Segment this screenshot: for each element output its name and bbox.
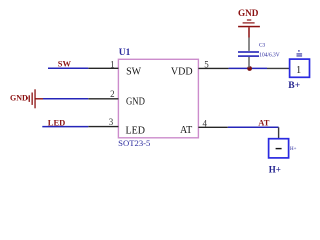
pin 1	[88, 67, 118, 69]
connector H+	[269, 139, 289, 158]
pin 4	[198, 126, 227, 128]
connector B+ tiny designator	[297, 50, 303, 56]
capacitor C3	[248, 38, 250, 51]
svg-text:1: 1	[296, 65, 301, 76]
pin 3	[88, 126, 118, 128]
power port GND (top)	[238, 8, 260, 27]
svg-text:104/6.3V: 104/6.3V	[259, 51, 280, 58]
svg-text:2: 2	[110, 89, 115, 99]
svg-text:B+: B+	[288, 80, 300, 91]
svg-text:GND: GND	[238, 8, 259, 18]
svg-text:1: 1	[110, 59, 115, 69]
svg-text:GND: GND	[10, 93, 28, 102]
pin of connector H+ (vertical)	[278, 127, 280, 138]
svg-text:SOT23-5: SOT23-5	[118, 138, 150, 148]
wire GND net	[43, 98, 88, 100]
power port GND stem	[248, 27, 250, 37]
wire SW	[48, 67, 88, 69]
svg-text:SW: SW	[126, 67, 142, 78]
svg-text:U1: U1	[119, 48, 131, 58]
pin 5	[198, 67, 228, 69]
wire LED	[42, 126, 88, 128]
node junction	[247, 66, 252, 71]
wire stub GND left	[35, 98, 43, 100]
pin 2	[88, 98, 118, 100]
wire VDD net (pin5 to junction to B+)	[229, 67, 267, 69]
op-amp U1 (IC body SOT23-5)	[118, 59, 198, 138]
svg-text:VDD: VDD	[171, 67, 193, 78]
svg-text:AT: AT	[180, 125, 192, 136]
power port GND (left)	[10, 89, 36, 108]
svg-text:3: 3	[109, 117, 114, 127]
svg-text:GND: GND	[126, 96, 145, 107]
wire AT	[228, 126, 279, 128]
connector B+	[290, 59, 310, 77]
svg-text:5: 5	[204, 59, 209, 69]
svg-text:AT: AT	[258, 118, 270, 128]
svg-text:H+: H+	[290, 147, 297, 152]
svg-text:SW: SW	[58, 59, 72, 69]
svg-text:C3: C3	[259, 42, 266, 48]
pin of connector B+	[267, 67, 290, 69]
svg-text:LED: LED	[126, 126, 145, 137]
svg-text:H+: H+	[269, 165, 281, 175]
svg-text:4: 4	[203, 118, 208, 128]
connector H+ pin mark	[276, 148, 282, 150]
